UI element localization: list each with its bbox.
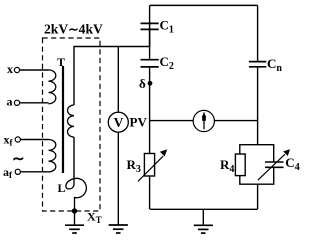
svg-text:x: x — [7, 62, 13, 76]
junction node XT — [72, 208, 77, 213]
wire secondary bottom — [73, 137, 75, 177]
voltmeter PV — [108, 112, 128, 132]
loop L (cursive loop in wire) — [66, 177, 87, 211]
primary winding 1 (x-a) — [49, 70, 56, 104]
svg-text:L: L — [58, 181, 66, 195]
wire secondary top — [74, 47, 150, 106]
wire galvanometer branch right — [214, 120, 257, 122]
wire top rail — [150, 5, 258, 46]
primary winding 2 (xf-af) — [49, 140, 56, 172]
wire R3 to bottom rail — [149, 176, 151, 209]
galvanometer G — [193, 110, 214, 131]
capacitor Cn — [249, 61, 266, 63]
node delta — [148, 81, 153, 86]
wire bottom rail — [150, 208, 257, 210]
ground (PV branch) — [109, 224, 128, 226]
svg-text:2kV∼4kV: 2kV∼4kV — [44, 22, 103, 37]
transformer core — [62, 66, 64, 173]
wire delta to R3 — [149, 121, 151, 154]
wire right rail top — [257, 5, 259, 61]
wire a to primary winding — [20, 102, 49, 104]
wire PV to ground — [117, 132, 119, 225]
dashed enclosure box — [43, 38, 101, 211]
wire PV branch from top wire — [117, 47, 119, 113]
wire xf to primary winding 2 — [20, 139, 48, 141]
ground (bridge) — [194, 224, 213, 226]
R4/C4 parallel bracket — [240, 145, 274, 210]
svg-text:PV: PV — [130, 115, 148, 130]
svg-text:V: V — [114, 115, 124, 130]
svg-text:∼: ∼ — [12, 152, 25, 168]
capacitor C4 (adjustable) — [265, 161, 284, 163]
wire galvanometer branch left — [150, 120, 194, 122]
svg-text:a: a — [7, 95, 13, 109]
wire right rail into R4C4 — [257, 144, 259, 146]
wire right rail middle — [257, 68, 259, 145]
secondary winding — [68, 105, 75, 137]
wire af to primary winding 2 — [20, 171, 48, 173]
resistor R4 — [235, 154, 245, 176]
ground (transformer tap) — [74, 211, 76, 225]
wire C1 to C2 — [149, 30, 151, 59]
wire C2 down — [149, 68, 151, 121]
wire ground tap — [202, 209, 204, 225]
wire x to primary winding — [20, 69, 49, 71]
resistor R3 (adjustable) — [144, 154, 154, 177]
svg-text:δ: δ — [139, 76, 146, 91]
capacitor C1 — [141, 22, 159, 24]
capacitor C2 — [141, 59, 159, 61]
